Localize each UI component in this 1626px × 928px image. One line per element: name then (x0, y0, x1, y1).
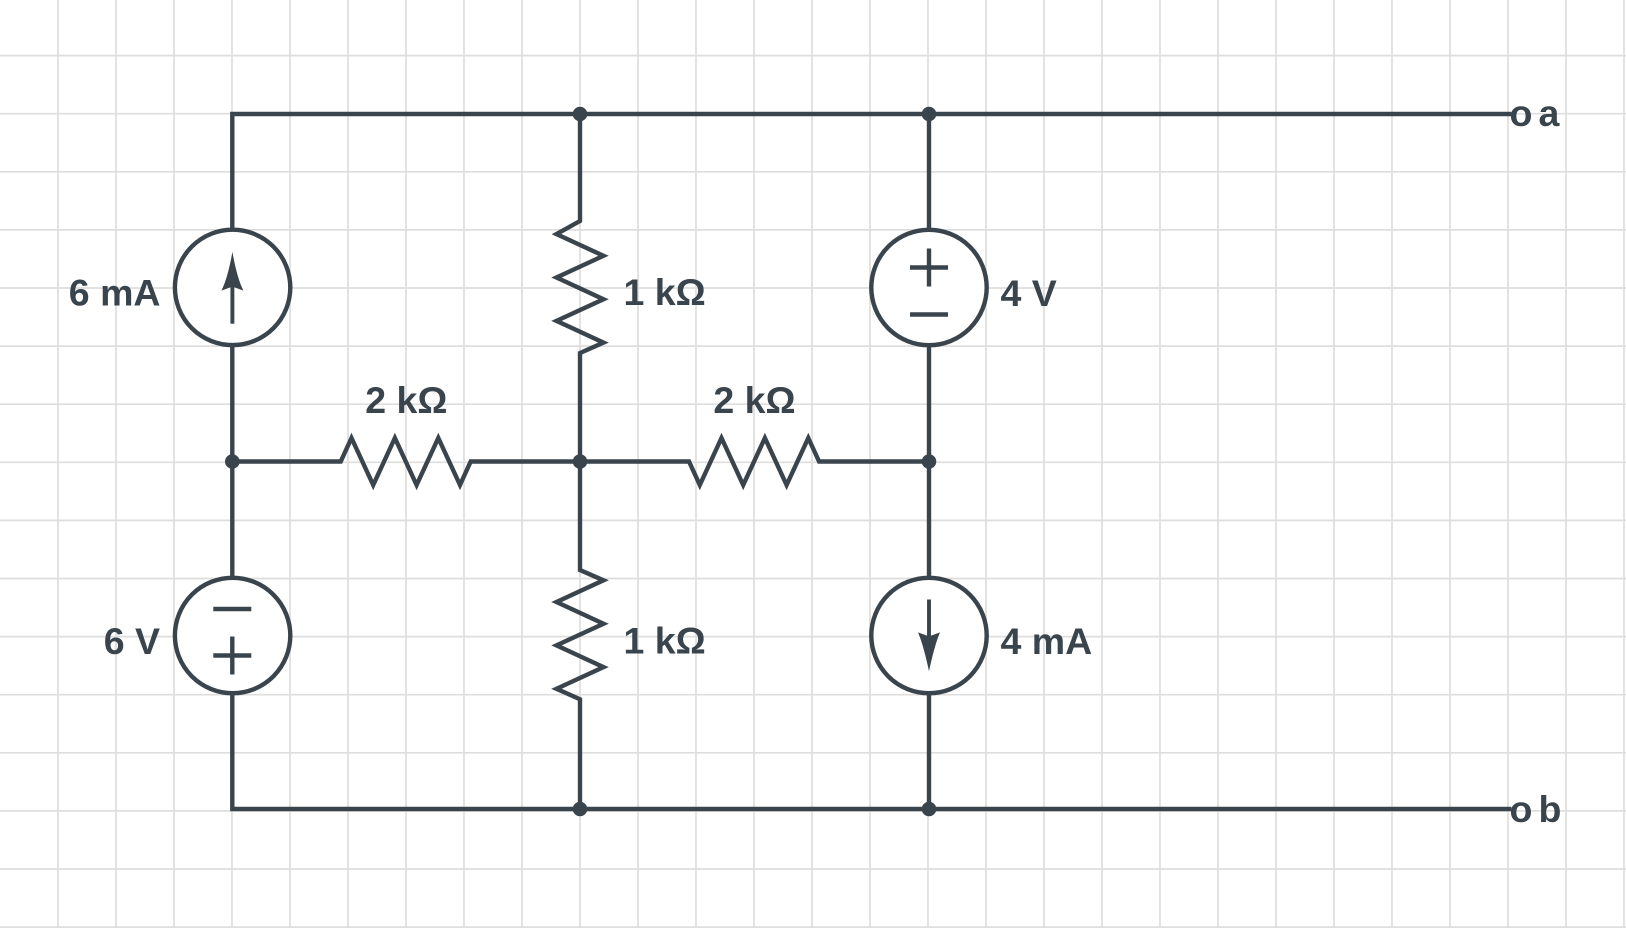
svg-text:6 V: 6 V (104, 620, 160, 662)
svg-text:1 kΩ: 1 kΩ (624, 271, 706, 313)
svg-text:2 kΩ: 2 kΩ (713, 379, 795, 421)
svg-text:2 kΩ: 2 kΩ (365, 379, 447, 421)
svg-text:4 V: 4 V (1001, 272, 1057, 314)
svg-text:1 kΩ: 1 kΩ (624, 620, 706, 662)
svg-text:6 mA: 6 mA (69, 272, 161, 314)
svg-text:4 mA: 4 mA (1001, 620, 1093, 662)
